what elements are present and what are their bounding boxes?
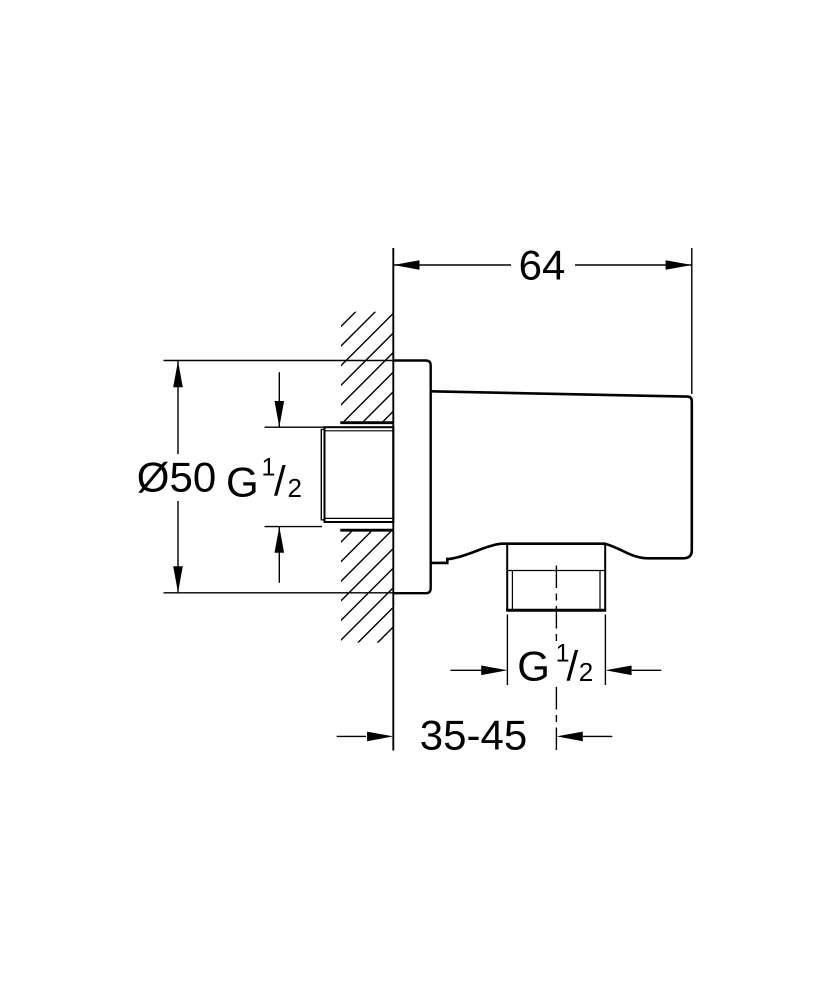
svg-text:2: 2 [288,473,302,503]
dimension Ø50: bottom extension line [164,592,394,594]
svg-text:Ø50: Ø50 [137,454,216,501]
outlet centerline [555,566,557,751]
outlet G 1/2 dimension: left extension line [506,615,508,686]
dimension 64: line [393,264,692,266]
dimension 35-45: right arrow [583,735,612,737]
svg-text:2: 2 [579,657,593,687]
svg-text:/: / [274,458,286,505]
outlet G 1/2 dimension: left arrow [451,669,482,671]
dimension Ø50: bottom arrowhead [173,566,183,592]
outlet fitting G1/2 thread box [507,544,605,611]
inner thread dimension: bottom arrow [278,527,280,583]
outlet fitting thread crest lines [511,571,513,610]
svg-text:35-45: 35-45 [420,712,527,759]
dimension Ø50: top arrowhead [173,361,183,387]
wall-side fitting end lip [321,429,324,519]
dimension 64: left arrowhead [393,260,419,270]
dimension 35-45: left arrow [337,735,366,737]
wall face line [392,248,394,751]
wall hole top edge [340,421,393,424]
wall hatching [0,240,780,760]
dimension Ø50: vertical line [177,361,179,593]
svg-text:G: G [517,643,550,690]
dimension 64: right extension line [691,248,693,394]
inner thread dimension: bottom extension line [265,526,323,528]
outlet fitting end face (thick) [506,609,606,612]
body outline [431,391,692,563]
inner thread dimension: top arrow [278,372,280,427]
svg-text:64: 64 [519,241,566,288]
svg-text:/: / [567,642,579,689]
wall hole bottom edge [340,529,393,532]
outlet fitting thread start line [507,570,605,572]
wall-side fitting thread crest lines [325,430,394,432]
outlet G 1/2 label background [514,642,598,687]
flange (escutcheon) [393,361,430,594]
wall-side fitting G1/2 thread box [325,427,394,522]
inner thread dimension: top extension line [265,426,325,428]
dimension 64: right arrowhead [666,260,692,270]
svg-text:G: G [226,458,259,505]
outlet G 1/2 dimension: right extension line [604,615,606,686]
dimension Ø50: top extension line [164,360,394,362]
outlet G 1/2 dimension: right arrow [632,669,662,671]
